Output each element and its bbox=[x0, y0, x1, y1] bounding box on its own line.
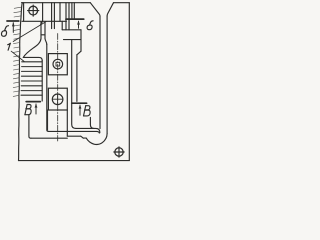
leader line of part 1 (upper) bbox=[13, 22, 46, 42]
funnel right diagonal bbox=[107, 3, 113, 16]
valve V1 inner square bbox=[56, 62, 60, 66]
narrow channel lower wall from B bar bbox=[90, 118, 94, 129]
top channel wall pair b bbox=[52, 3, 55, 22]
centerline of spool bores bbox=[57, 34, 59, 142]
label В (right) bbox=[84, 106, 91, 116]
section arrow В (left): bar bbox=[26, 101, 40, 103]
right channel left wall bbox=[99, 16, 101, 128]
hatch ticks along break line bbox=[13, 7, 21, 96]
leader line of part 1 (lower) bbox=[11, 51, 24, 61]
lower ledge right bbox=[64, 39, 82, 41]
spring stack top edge bbox=[23, 57, 42, 60]
left wall below spring stack bbox=[29, 115, 31, 138]
section arrow Б (top left): bar bbox=[7, 20, 19, 22]
inner channel wall bbox=[72, 40, 76, 129]
section arrow Б (top middle): bar bbox=[66, 18, 84, 20]
top channel wall c bbox=[59, 3, 61, 22]
bell flare left bbox=[23, 39, 41, 58]
section arrow В (left): arrow up bbox=[35, 104, 37, 114]
right wall jog bbox=[77, 51, 81, 55]
section arrow Б (top left): arrow up bbox=[12, 23, 14, 33]
bottom seat ledge bbox=[67, 135, 80, 137]
label Б (top left) bbox=[1, 26, 8, 37]
top channel wall a bbox=[42, 3, 44, 22]
label В (left) bbox=[25, 105, 31, 115]
section arrow В (right): bar bbox=[72, 102, 87, 104]
plug bottom ledge bbox=[41, 34, 45, 36]
elbow outer curve bbox=[86, 134, 107, 145]
spring stack right edge bbox=[41, 61, 43, 102]
top-left block inner face bbox=[23, 3, 25, 22]
valve square V2 bbox=[48, 88, 67, 110]
bottom channel outer line bbox=[31, 137, 67, 139]
body outline: top edge right segment bbox=[114, 2, 130, 4]
top channel wall pair d bbox=[66, 3, 69, 22]
square V2 right edge extension bbox=[66, 110, 68, 136]
screw S2 cross bbox=[114, 147, 124, 157]
label Б (top middle) bbox=[87, 21, 93, 30]
body outline: top edge left segment bbox=[22, 2, 91, 4]
break line (wavy left edge) bbox=[19, 3, 23, 161]
screw S1 cross bbox=[28, 5, 39, 16]
screw S1 circle bbox=[29, 6, 38, 15]
cavity left wall bbox=[47, 45, 48, 132]
valve V1 circle bbox=[53, 59, 63, 69]
wall c lower stub bbox=[61, 21, 63, 30]
bell flare right bbox=[45, 39, 47, 45]
body outline: right edge bbox=[128, 3, 130, 161]
bottom outer segment to elbow bbox=[83, 137, 86, 139]
funnel left diagonal bbox=[90, 3, 100, 17]
top channel wall pair e bbox=[72, 3, 74, 19]
neck walls of upper plug bbox=[40, 22, 42, 39]
spring stack coil lines bbox=[21, 62, 42, 95]
square V2 left edge extension bbox=[47, 110, 49, 130]
top block bottom line bbox=[22, 20, 67, 22]
mid ledge right of ports bbox=[62, 29, 81, 31]
chamfer step at neck bbox=[41, 21, 43, 24]
screw S2 circle bbox=[115, 148, 123, 156]
valve V2 cross bbox=[52, 94, 62, 104]
seat step bbox=[81, 136, 83, 138]
valve square V1 bbox=[48, 54, 67, 75]
body outline: bottom edge bbox=[19, 160, 130, 162]
bottom channel inner top line bbox=[48, 131, 99, 133]
section arrow Б (top middle): arrow up bbox=[78, 21, 80, 28]
section arrow В (right): arrow up bbox=[79, 105, 81, 115]
right cavity wall upper bbox=[80, 30, 82, 51]
right channel right wall bbox=[106, 16, 108, 134]
narrow channel top line to junction bbox=[76, 128, 100, 132]
valve V2 circle bbox=[52, 94, 63, 105]
port below d bbox=[66, 21, 69, 30]
label 1 bbox=[8, 43, 11, 50]
right cavity wall lower bbox=[76, 55, 78, 102]
port below b bbox=[52, 21, 55, 28]
